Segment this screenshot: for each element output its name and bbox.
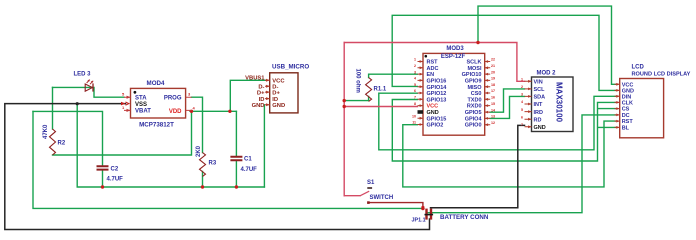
pin stubs ESP right [485,62,491,125]
node ground rail top [76,102,79,105]
svg-text:18: 18 [491,83,495,87]
svg-text:GPIO9: GPIO9 [465,79,482,85]
wire to switch [344,195,360,197]
svg-text:D+: D+ [257,90,265,96]
svg-text:ROUND LCD DISPLAY: ROUND LCD DISPLAY [632,72,691,78]
wire GPIO12 to LCD DIN [379,93,616,150]
wire VCC to ESP [344,106,417,108]
svg-text:SCL: SCL [534,87,546,93]
svg-text:6: 6 [414,89,416,93]
svg-text:6: 6 [521,115,523,119]
svg-text:GPIO16: GPIO16 [427,79,447,85]
svg-text:R3: R3 [209,161,217,167]
svg-text:2: 2 [521,85,523,89]
svg-text:GND: GND [534,125,546,131]
wire LED to STA [53,87,125,97]
wire ground rail [77,104,264,187]
svg-text:TXD0: TXD0 [467,97,481,103]
node crimson tap [476,41,479,44]
WIRES-BLACK [5,104,525,230]
wire MAX GND to JP [431,125,525,207]
wire USB GND down [263,105,265,187]
node VDD junction [190,110,193,113]
resistor R3 [196,145,217,176]
svg-text:S1: S1 [367,180,375,186]
node R1.1 bottom [343,99,346,102]
svg-text:VSS: VSS [135,102,147,108]
svg-text:MOSI: MOSI [467,66,482,72]
svg-text:BL: BL [622,126,630,132]
wire ground main loop [5,104,430,230]
svg-text:GPIO0: GPIO0 [465,123,482,129]
svg-text:CS: CS [622,107,630,113]
wire R1.1 bottom [344,97,368,101]
svg-text:12: 12 [491,121,495,125]
node VBUS junction [228,110,231,113]
svg-text:MOD 2: MOD 2 [537,71,557,77]
wire C2 top branch [33,111,103,187]
svg-text:C1: C1 [244,157,252,163]
svg-text:7: 7 [414,96,416,100]
svg-text:DC: DC [622,113,630,119]
svg-text:5: 5 [521,108,523,112]
svg-text:11: 11 [412,121,416,125]
svg-text:JP1.1: JP1.1 [412,218,426,224]
wire EN to R1.1 [369,74,418,77]
svg-text:14: 14 [491,108,495,112]
svg-text:RXD0: RXD0 [467,104,482,110]
wire GPIO5 to SCL [490,89,525,112]
wire GPIO2 to LCD RST [403,121,616,187]
resistor R1.1 [355,69,387,102]
wire USB VBUS down [230,80,265,111]
svg-text:16: 16 [491,96,495,100]
svg-text:22: 22 [491,58,495,62]
pin stubs USB [265,80,270,105]
wire R2 top [52,87,54,129]
svg-text:3: 3 [521,93,523,97]
svg-text:4: 4 [414,77,416,81]
pin GND pad ESP [418,110,424,114]
svg-text:GPIO13: GPIO13 [427,97,447,103]
svg-text:MCP73812T: MCP73812T [139,122,174,129]
svg-text:RD: RD [534,117,542,123]
svg-text:STA: STA [135,96,147,102]
svg-text:47K0: 47K0 [43,124,49,139]
switch S1 [360,180,393,204]
pin stubs MOD4 [124,97,192,110]
node C2 rail [101,185,104,188]
svg-text:GND: GND [272,103,285,109]
svg-text:C2: C2 [111,167,119,173]
svg-text:7: 7 [521,123,523,127]
capacitor C2 [97,166,124,182]
node battery dot [421,207,425,211]
svg-text:ID: ID [259,97,265,103]
pin stubs MAX [525,81,532,127]
svg-text:13: 13 [491,115,495,119]
svg-text:8: 8 [414,102,416,106]
svg-text:CS0: CS0 [471,91,482,97]
svg-text:SCLK: SCLK [467,60,482,66]
module MOD2 MAX30100 [521,71,573,132]
svg-text:1: 1 [521,78,523,82]
svg-text:D+: D+ [272,90,280,96]
svg-text:IRD: IRD [534,110,544,116]
svg-text:DIN: DIN [622,95,632,101]
svg-text:MAX30100: MAX30100 [555,82,564,123]
svg-text:INT: INT [534,102,544,108]
svg-text:4.7UF: 4.7UF [107,177,124,183]
svg-text:100 ohm: 100 ohm [355,69,361,93]
LED LED3 [74,72,94,92]
WIRES-GREEN [33,6,616,213]
svg-text:2K0: 2K0 [196,145,202,157]
svg-text:LED 3: LED 3 [74,72,92,78]
svg-text:EN: EN [427,72,435,78]
svg-text:1: 1 [414,58,416,62]
wire VCC net box top [344,43,524,82]
svg-text:CLK: CLK [622,101,633,107]
svg-text:GPIO15: GPIO15 [427,116,447,122]
display LCD ROUND LCD DISPLAY [615,65,691,138]
wire PROG to R3 [192,97,203,187]
connector USB_MICRO [245,64,309,113]
svg-text:R2: R2 [58,141,66,147]
svg-text:GPIO14: GPIO14 [427,85,448,91]
wire switch to JP1 [368,203,423,209]
capacitor C1 [230,157,257,174]
svg-text:LCD: LCD [632,65,645,71]
wire top A crimson-tap to LCD VCC [478,6,616,84]
wire top B GPIO14 to LCD GND [392,15,615,90]
svg-text:GND: GND [427,110,439,116]
svg-text:VCC: VCC [622,82,634,88]
svg-text:SWITCH: SWITCH [370,195,394,201]
svg-text:PROG: PROG [164,96,182,102]
pin stubs ESP left [418,62,424,125]
svg-text:17: 17 [491,89,495,93]
svg-text:VIN: VIN [534,80,543,86]
svg-text:GPIO2: GPIO2 [427,123,444,129]
svg-text:VDD: VDD [169,109,182,115]
svg-text:GPIO10: GPIO10 [462,72,482,78]
node R3 rail [201,185,204,188]
svg-text:15: 15 [491,102,495,106]
svg-text:RST: RST [427,60,439,66]
svg-text:4: 4 [521,100,523,104]
svg-text:USB_MICRO: USB_MICRO [272,64,309,71]
wire battery plus loop [33,111,423,208]
svg-text:BATTERY CONN: BATTERY CONN [440,214,489,221]
module MOD4 MCP73812T charger IC [121,80,196,129]
svg-text:MOD3: MOD3 [446,46,464,52]
svg-text:GPIO5: GPIO5 [465,110,482,116]
wire GPIO4 to SDA [490,96,525,118]
svg-text:ID: ID [272,97,278,103]
wire GPIO13 to LCD CLK CS BL [392,100,615,162]
pin numbers ESP [412,58,495,125]
svg-text:VBAT: VBAT [135,109,151,115]
svg-text:ESP-12F: ESP-12F [441,54,466,60]
WIRES-CRIMSON [344,43,524,196]
svg-text:MOD4: MOD4 [147,80,165,87]
connector JP1.1 BATTERY CONN [412,206,489,223]
node C1 rail [235,185,238,188]
svg-text:5: 5 [414,83,416,87]
svg-text:3: 3 [414,70,416,74]
svg-text:4.7UF: 4.7UF [241,167,258,173]
svg-text:GND: GND [252,103,265,109]
svg-text:20: 20 [491,70,495,74]
svg-text:R1.1: R1.1 [374,87,387,93]
module MOD3 ESP-12F [412,46,495,135]
svg-text:GPIO12: GPIO12 [427,91,447,97]
wire VDD to C1 [190,110,236,112]
wire R2 bottom rail y=154.5 [53,111,192,155]
svg-text:19: 19 [491,77,495,81]
svg-text:MISO: MISO [467,85,482,91]
svg-text:10: 10 [412,114,416,118]
wire LCD DC to battery [428,115,616,213]
svg-text:GPIO4: GPIO4 [465,116,483,122]
svg-text:2: 2 [414,64,416,68]
node VCC branch [343,105,346,108]
svg-text:SDA: SDA [534,95,546,101]
svg-text:ADC: ADC [427,66,439,72]
svg-text:RST: RST [622,119,634,125]
pin stubs LCD [615,84,620,127]
svg-text:VBUS1: VBUS1 [245,75,265,81]
wire C1 vertical [235,111,237,187]
resistor R2 [43,124,66,155]
svg-text:VCC: VCC [427,104,439,110]
svg-text:21: 21 [491,64,495,68]
wire VCC net left vertical [343,43,345,196]
